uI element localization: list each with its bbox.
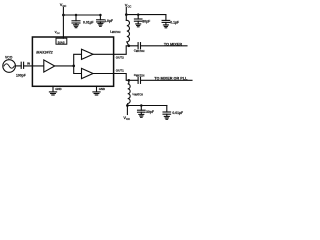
wire OUT1 to matching node: [114, 74, 139, 81]
svg-text:1.0µF: 1.0µF: [104, 19, 113, 23]
junction cap tap: [75, 14, 78, 17]
inductor L1 LMATCH top: [126, 20, 129, 46]
svg-text:LMATCH: LMATCH: [133, 92, 144, 97]
svg-text:100pF: 100pF: [16, 74, 26, 78]
svg-text:CMATCH: CMATCH: [134, 49, 145, 54]
svg-text:CMATCH: CMATCH: [134, 73, 145, 78]
op-amp A1 input buffer: [44, 60, 55, 72]
junction cap tap 30pF: [137, 13, 140, 16]
svg-text:VCC: VCC: [55, 30, 61, 35]
svg-text:MAX2472: MAX2472: [36, 50, 53, 54]
wire OUT1 inside: [93, 73, 114, 75]
wire cap to IN pin: [24, 65, 44, 67]
svg-text:BIAS: BIAS: [58, 40, 65, 44]
svg-text:LMATCH: LMATCH: [110, 29, 121, 34]
junction splitter: [72, 65, 75, 68]
wire to mixer or pll: [141, 79, 193, 81]
ground under C3: [136, 24, 141, 27]
capacitor C5 CMATCH top (series): [138, 43, 140, 49]
wire amp1 out to split: [55, 65, 74, 67]
ground under C9: [164, 116, 169, 119]
wire to mixer top: [141, 45, 188, 47]
junction at VCC right: [125, 13, 128, 16]
svg-text:0.01µF: 0.01µF: [172, 111, 183, 115]
svg-text:OUT2: OUT2: [116, 56, 124, 60]
svg-text:0.1µF: 0.1µF: [170, 20, 179, 24]
wire splitter bus: [74, 54, 82, 73]
svg-text:0.01µF: 0.01µF: [83, 21, 94, 25]
op-amp A3 bottom output buffer: [82, 68, 94, 78]
svg-text:VCC: VCC: [60, 2, 67, 8]
ground under C4: [163, 25, 168, 28]
node VCC top-left supply wire: [62, 7, 64, 38]
capacitor C8 30pF bottom: [138, 106, 146, 115]
svg-text:GND: GND: [55, 87, 61, 91]
capacitor C2 1.0uF: [97, 15, 105, 23]
ground symbol left: [49, 92, 56, 95]
wire VCO to cap: [15, 65, 21, 67]
junction at VCC left: [62, 14, 65, 17]
capacitor C4 0.1uF: [162, 15, 170, 25]
wire to VCC bottom: [126, 106, 128, 115]
svg-text:30pF: 30pF: [142, 20, 150, 24]
svg-text:30pF: 30pF: [146, 110, 154, 114]
wire OUT2 inside: [93, 53, 114, 55]
inductor L2 LMATCH bottom: [127, 80, 130, 105]
node VCC top-right supply wire: [125, 8, 127, 21]
capacitor C1 0.01uF: [72, 15, 80, 25]
wire GND pin left: [52, 86, 54, 91]
svg-text:GND: GND: [99, 87, 105, 91]
wire OUT2 to matching node: [114, 46, 139, 55]
svg-text:VCC: VCC: [123, 115, 130, 121]
ground under C8: [139, 114, 144, 117]
junction top matching node: [127, 44, 130, 47]
wire bottom rail: [127, 105, 166, 107]
svg-text:IN: IN: [27, 62, 30, 66]
wire GND pin right: [96, 86, 98, 91]
junction bottom vcc node: [126, 104, 129, 107]
capacitor C3 30pF: [134, 15, 142, 24]
junction corner dot: [99, 14, 102, 17]
node VCO source: [3, 60, 16, 73]
capacitor C9 0.01uF bottom: [163, 106, 171, 117]
junction bottom matching node: [127, 79, 130, 82]
wire top-left rail: [63, 14, 100, 16]
svg-text:VCO: VCO: [5, 55, 13, 59]
ground under C1: [74, 25, 79, 28]
op-amp A2 top output buffer: [82, 49, 94, 59]
junction cap tap bottom 30pF: [140, 104, 143, 107]
bias block: [56, 38, 67, 44]
wire top-right rail: [126, 14, 166, 16]
svg-text:TO MIXER: TO MIXER: [164, 42, 183, 46]
ground under C2: [98, 23, 103, 26]
IC box U1 MAX2472: [32, 37, 113, 86]
svg-text:TO MIXER OR PLL: TO MIXER OR PLL: [154, 77, 188, 81]
ground symbol right: [93, 92, 100, 95]
capacitor C7 CMATCH bottom (series): [138, 77, 140, 83]
capacitor C6 100pF (series input): [21, 62, 23, 68]
svg-text:OUT1: OUT1: [116, 68, 124, 72]
